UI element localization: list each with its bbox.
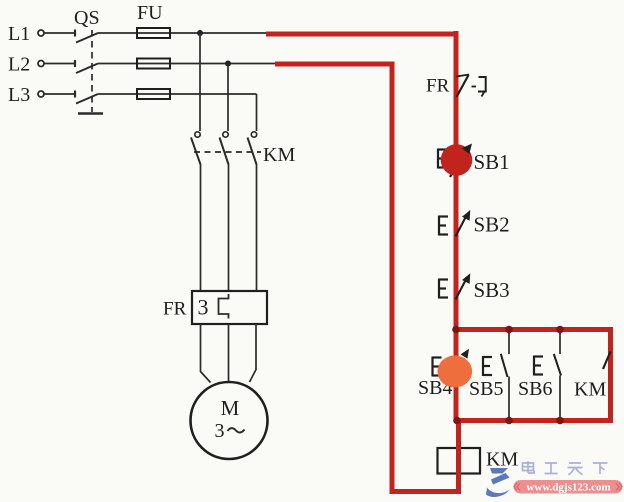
node L1 terminal (8, 23, 44, 45)
pushbutton SB5 branch bottom stub (508, 377, 510, 419)
svg-text:SB1: SB1 (474, 150, 510, 174)
pushbutton SB4 actuator E (433, 357, 442, 377)
svg-text:L3: L3 (8, 84, 30, 106)
pushbutton SB2 actuator E (439, 216, 448, 236)
wire red top bus (454, 327, 614, 332)
pushbutton SB1 blade (450, 148, 467, 177)
pushbutton SB3 arrow (462, 273, 470, 284)
junction dot bottom bus SB6 (556, 417, 564, 425)
node L2 terminal (8, 54, 44, 76)
svg-text:SB3: SB3 (474, 278, 510, 302)
wire FR to motor left (201, 324, 211, 383)
switch QS pole 3 (75, 91, 98, 104)
pushbutton SB3 blade (456, 278, 468, 300)
svg-text:3: 3 (215, 420, 225, 442)
svg-text:www.dgjs123.com: www.dgjs123.com (526, 482, 610, 494)
switch QS pole 2 (75, 60, 98, 73)
junction dot L1 (197, 30, 203, 36)
wire L1 to QS (45, 32, 75, 34)
wire L3 to QS (45, 93, 75, 95)
switch QS pole 1 (75, 30, 98, 43)
junction dot bottom bus left (453, 417, 461, 425)
pushbutton SB3 actuator E (439, 279, 448, 299)
pushbutton SB6 branch bottom stub (559, 376, 561, 419)
pushbutton SB6 branch top stub (559, 332, 561, 354)
pushbutton SB4 blade (451, 358, 464, 387)
svg-text:QS: QS (74, 7, 100, 29)
contactor KM main pole 2 (220, 132, 229, 165)
junction dot bottom bus SB5 (505, 417, 513, 425)
wire L2 drop to KM (227, 64, 229, 132)
watermark text dian gong tian xia (523, 461, 608, 475)
motor M (191, 382, 268, 459)
wire red L1 horizontal (266, 32, 459, 37)
pushbutton SB5 branch top stub (508, 332, 510, 354)
junction dot L2 (225, 61, 231, 67)
junction dot top bus SB5 (505, 326, 513, 334)
label 3~ (215, 420, 245, 442)
pushbutton SB1 actuator E (438, 149, 447, 169)
switch QS handle bar (78, 112, 103, 114)
contact KM auxiliary blade (603, 352, 611, 370)
contactor KM linkage dashed (194, 151, 261, 153)
pushbutton SB6 actuator E (534, 356, 543, 376)
pushbutton SB4 arrow (461, 349, 470, 359)
wire FR to motor right (250, 324, 257, 382)
pushbutton SB5 actuator E (483, 356, 492, 376)
thermal relay FR heater box (192, 291, 267, 324)
wire L3 QS to corner (98, 93, 257, 95)
svg-text:FR: FR (426, 76, 450, 97)
watermark logo swan (486, 468, 510, 497)
svg-text:L2: L2 (8, 54, 30, 76)
switch QS linkage dashed (91, 30, 93, 112)
pushbutton SB2 arrow (462, 210, 470, 221)
wire red bus to coil (456, 418, 461, 476)
pushbutton SB1 arrow (462, 144, 472, 155)
pushbutton SB5 blade (501, 354, 508, 377)
svg-text:L1: L1 (8, 23, 30, 45)
svg-text:FR: FR (163, 299, 187, 320)
pushbutton SB6 blade (554, 354, 561, 376)
contactor KM main pole 1 (191, 132, 201, 165)
coil KM rectangle (438, 448, 481, 474)
wire L1 drop to KM (199, 33, 201, 131)
wire L3 drop to KM (256, 94, 258, 131)
fuse FU3 (137, 89, 170, 99)
svg-text:SB5: SB5 (469, 378, 503, 400)
wire red bottom return horizontal (390, 489, 462, 494)
wire red L2 horizontal (275, 62, 395, 67)
watermark url pill (514, 480, 623, 494)
svg-text:SB6: SB6 (518, 378, 552, 400)
contactor KM main pole 3 (248, 132, 257, 165)
fuse FU1 (137, 28, 170, 38)
pushbutton SB1 red button (441, 144, 473, 176)
wire KM pole1 to FR (200, 164, 202, 291)
svg-text:M: M (221, 396, 240, 420)
svg-text:KM: KM (263, 144, 295, 166)
wire L2 QS to junction (98, 63, 276, 65)
pushbutton SB4 orange button (438, 356, 473, 388)
wire red coil to bottom (456, 474, 461, 494)
svg-text:KM: KM (486, 449, 518, 471)
svg-text:KM: KM (574, 379, 606, 401)
wire FR to motor middle (228, 324, 230, 383)
wire red main vertical (454, 31, 459, 421)
svg-text:FU: FU (137, 2, 163, 24)
svg-text:SB2: SB2 (474, 213, 510, 237)
pushbutton SB2 blade (456, 215, 468, 237)
junction dot top bus SB6 (556, 326, 564, 334)
svg-text:3: 3 (198, 295, 209, 320)
wire L1 QS to junction (98, 32, 267, 34)
junction dot top bus left (452, 326, 460, 334)
wire L2 to QS (45, 63, 75, 65)
wire red left return vertical (390, 62, 395, 495)
wire red bottom bus (456, 418, 613, 423)
fuse FU2 (137, 59, 170, 69)
wire KM pole2 to FR (228, 164, 230, 291)
node L3 terminal (8, 84, 44, 106)
wire red right branch vertical (608, 327, 613, 423)
thermal relay heater element symbol (219, 294, 229, 319)
wire KM pole3 to FR (256, 164, 258, 291)
contact FR normally-closed (control) (457, 75, 486, 98)
